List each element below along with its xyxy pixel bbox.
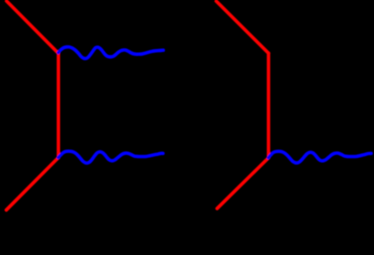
left diagram: outgoing fermion line — [6, 158, 58, 210]
right diagram: photon wavy line — [268, 151, 371, 163]
right diagram: internal fermion propagator (vertical) — [267, 53, 270, 158]
left diagram: internal fermion propagator (vertical) — [57, 53, 60, 157]
left diagram: incoming fermion line — [7, 1, 59, 53]
left diagram: lower photon wavy line — [58, 151, 163, 163]
left diagram: upper photon wavy line — [58, 47, 163, 59]
right diagram: outgoing fermion line — [217, 158, 268, 209]
right diagram: incoming fermion line — [216, 1, 268, 53]
